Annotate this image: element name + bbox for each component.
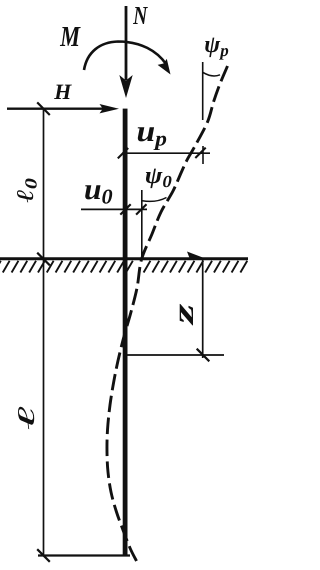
dimension u_0 [81,204,147,214]
psi_0 angle arc [142,198,166,202]
pile shaft [123,109,128,556]
tick at H level [37,102,50,115]
deflected pile axis (dashed curve) [107,66,228,561]
force N arrow [119,6,132,98]
label psi_p [205,38,228,60]
z extension line [126,354,224,356]
psi_p angle arc [203,72,220,76]
label z [180,304,193,326]
label l [18,407,34,430]
label psi_0 [146,169,172,189]
label M [60,27,81,46]
label u_0 [85,185,112,204]
dimension line left (l0 above ground, l below) [43,109,45,556]
force H arrow [7,104,119,113]
dimension line z [202,259,204,358]
label l0 [17,179,37,203]
psi_p reference vertical [202,62,204,120]
tick at z end [197,349,210,362]
label u_p [138,127,167,150]
ground surface line [0,257,248,260]
pile toe line [38,554,130,556]
label H [54,85,72,99]
tick at ground level [37,253,50,266]
dimension u_p [118,146,210,164]
z origin arrow on ground line [187,252,204,259]
ground hatching [0,261,256,273]
psi_0 reference vertical [141,190,143,259]
tick at bottom [37,549,50,562]
label N [133,7,148,24]
moment M arc [84,42,171,75]
